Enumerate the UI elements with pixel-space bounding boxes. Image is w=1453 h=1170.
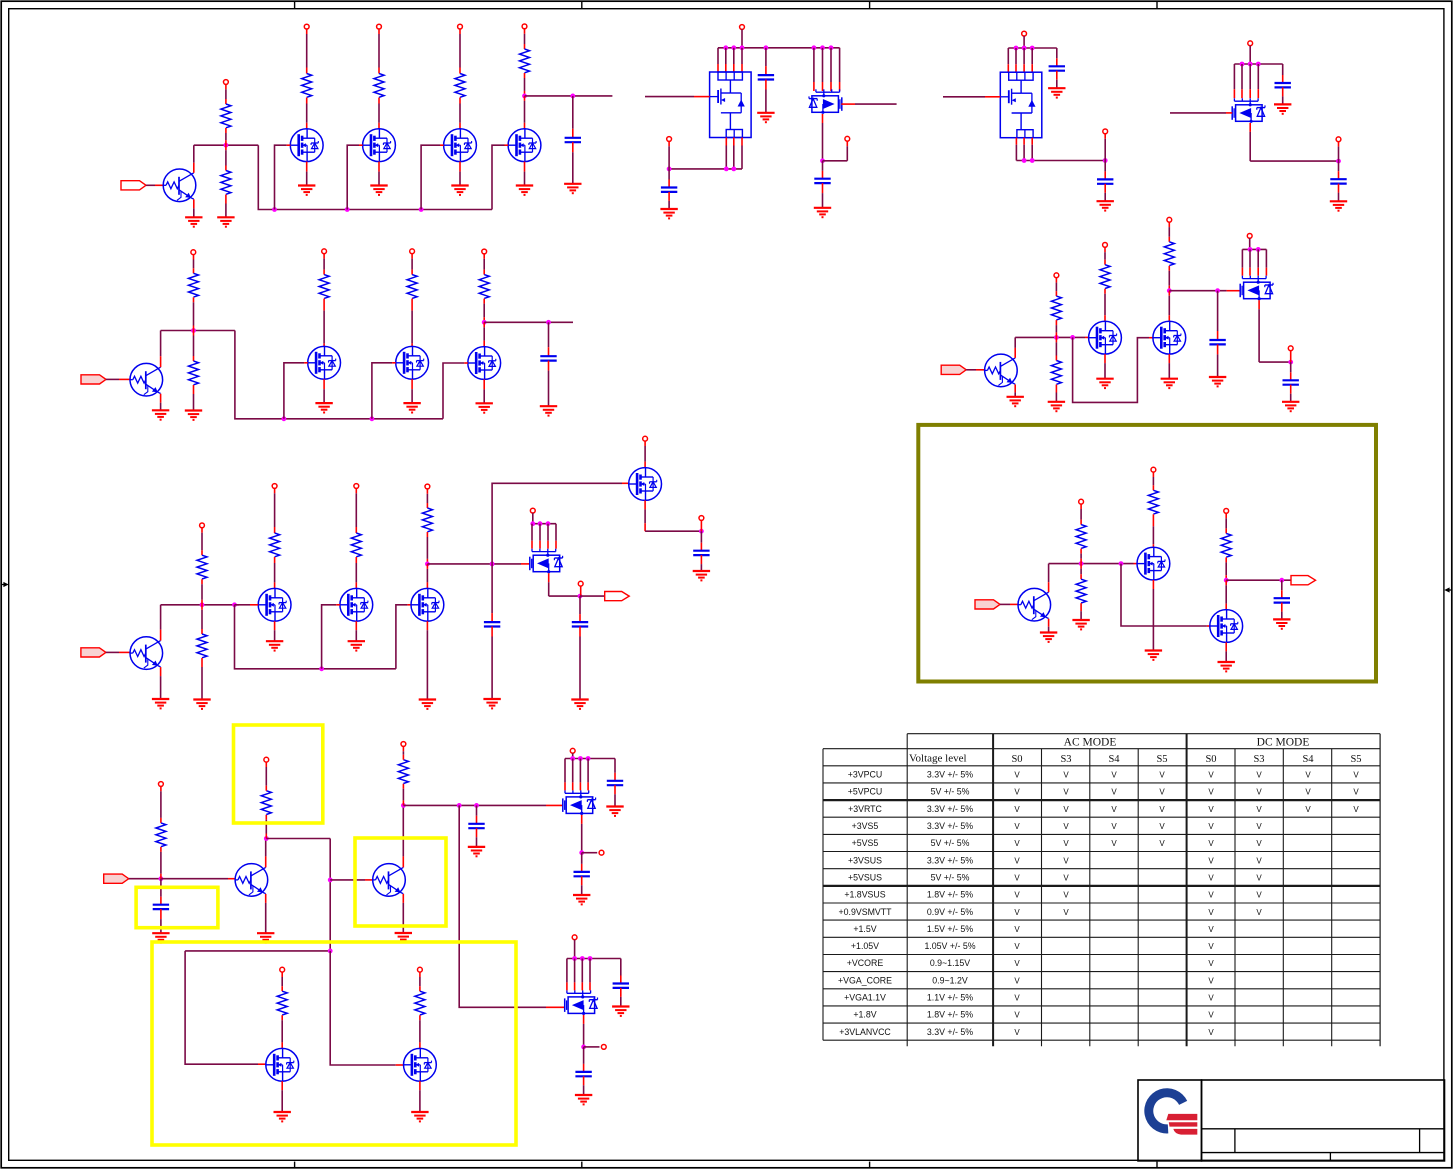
svg-text:V: V (1159, 822, 1165, 831)
svg-text:1.8V +/- 5%: 1.8V +/- 5% (927, 890, 973, 900)
resistor RM6 (407, 275, 417, 299)
pin P-R10 (1054, 273, 1059, 278)
wire M7 source (483, 379, 485, 403)
svg-text:V: V (1256, 822, 1262, 831)
wire R12 to node (1080, 549, 1082, 564)
wire U2 pin (813, 48, 815, 91)
resistor R3 (189, 273, 199, 297)
wire R3 to node (193, 297, 195, 330)
input flag IN3 (81, 648, 106, 657)
ground Q5 emitter (395, 933, 412, 942)
junction (1256, 247, 1261, 252)
wire Q4 collector (265, 839, 267, 868)
wire R1 to node (225, 128, 227, 145)
svg-text:+1.05V: +1.05V (851, 941, 879, 951)
svg-text:V: V (1208, 805, 1214, 814)
wire M13 gate lead (396, 1064, 404, 1066)
wire Q4 base lead (228, 878, 235, 880)
wire Q6 emitter (1014, 384, 1016, 396)
pin P-N3 (1103, 129, 1108, 134)
output flag OUT1 (605, 592, 630, 601)
svg-text:+0.9VSMVTT: +0.9VSMVTT (838, 907, 892, 917)
wire M5 source (323, 379, 325, 403)
svg-text:1.8V +/- 5%: 1.8V +/- 5% (927, 1010, 973, 1020)
ground C7 (1274, 104, 1291, 113)
wire U6 source (581, 815, 583, 853)
pin P-M1 (304, 24, 309, 29)
resistor RM17 (1221, 533, 1231, 557)
wire C16 top (581, 853, 583, 872)
junction (1054, 335, 1059, 340)
svg-text:V: V (1256, 856, 1262, 865)
wire R5 top (201, 528, 203, 556)
pin P-U7 (572, 935, 577, 940)
junction (282, 416, 287, 421)
svg-text:V: V (1353, 805, 1359, 814)
wire N3 riser (1104, 134, 1106, 161)
resistor RM2 (374, 74, 384, 98)
wire N1 riser (668, 141, 670, 169)
junction (820, 45, 825, 50)
ground M13 (411, 1112, 428, 1121)
junction (570, 756, 575, 761)
wire M3 gate riser (421, 145, 440, 209)
wire C2 bottom (765, 80, 767, 113)
nmos M16 (1137, 547, 1170, 580)
resistor R12 (1076, 525, 1086, 549)
wire C9 bottom (548, 361, 550, 407)
wire C1 bottom (572, 142, 574, 184)
pin P-M5 (322, 249, 327, 254)
resistor R8 (261, 791, 271, 815)
title block (1138, 1080, 1445, 1161)
wire C18 bottom (583, 1076, 585, 1095)
svg-text:V: V (1256, 788, 1262, 797)
wire M10 source (426, 621, 428, 699)
resistor RM16 (1148, 490, 1158, 514)
wire Q1 collector bus (194, 144, 258, 146)
svg-text:V: V (1111, 771, 1117, 780)
nmos M4 (508, 129, 541, 162)
ground Q4 emitter (257, 933, 274, 942)
wire R7 top (160, 786, 162, 823)
pin P-M9 (354, 484, 359, 489)
resistor R11 (1051, 361, 1061, 385)
svg-text:0.9~1.15V: 0.9~1.15V (930, 958, 970, 968)
wire M12 drain (281, 1015, 283, 1048)
border tick bottom (581, 1162, 583, 1168)
pin P-M2 (377, 24, 382, 29)
capacitor C14 (468, 824, 484, 828)
junction (1248, 247, 1253, 252)
wire M15 drain upper (1168, 222, 1170, 242)
svg-text:3.3V +/- 5%: 3.3V +/- 5% (927, 855, 973, 865)
junction (1336, 159, 1341, 164)
svg-text:5V +/- 5%: 5V +/- 5% (931, 787, 970, 797)
wire Q3 base lead (119, 651, 130, 653)
border tick top (1156, 1, 1158, 9)
wire Q2 collector bus (161, 330, 235, 332)
svg-text:+3VLANVCC: +3VLANVCC (839, 1027, 891, 1037)
wire U3 bottom pin (1015, 138, 1017, 161)
wire row2 node stub (484, 321, 573, 323)
junction (1256, 62, 1261, 67)
wire U1 pin (717, 48, 719, 72)
wire row3 gate bus (235, 605, 396, 669)
wire U4 pin (1249, 64, 1251, 98)
junction (319, 666, 324, 671)
wire U8 pin (1241, 249, 1243, 275)
wire M17 source (1225, 642, 1227, 662)
pin P-U5 (530, 508, 535, 513)
wire U8 gate lead (1227, 290, 1240, 292)
wire bus950 (185, 950, 330, 952)
junction (1224, 578, 1229, 583)
wire M10 res to node (426, 532, 428, 564)
wire M13 gate path (330, 951, 396, 1065)
wire M1 gate riser (275, 145, 287, 209)
wire M12 gate path (185, 951, 258, 1064)
wire U6 pin (564, 759, 566, 791)
pin P-U6 (570, 748, 575, 753)
junction (474, 803, 479, 808)
svg-text:V: V (1014, 856, 1020, 865)
wire C1 top (572, 96, 574, 138)
wire U7 pin (566, 959, 568, 991)
resistor RM15 (1164, 242, 1174, 266)
wire M1 gate lead (287, 144, 291, 146)
svg-text:V: V (1014, 994, 1020, 1003)
svg-text:+3VPCU: +3VPCU (848, 770, 882, 780)
wire U1 top bus (718, 47, 840, 49)
wire M5 drain (323, 299, 325, 347)
wire M4 gate riser (492, 145, 505, 209)
wire C8 top (1338, 161, 1340, 179)
wire Q7 emitter (1048, 619, 1050, 633)
wire flag4 bus (129, 878, 161, 880)
svg-text:V: V (1014, 891, 1020, 900)
wire C20 bottom (1290, 385, 1292, 402)
wire M5 gate lead (304, 362, 308, 364)
svg-text:+1.8V: +1.8V (853, 1010, 876, 1020)
wire C4 bottom (822, 183, 824, 208)
svg-text:V: V (1208, 874, 1214, 883)
wire U6 out (582, 852, 598, 854)
svg-text:V: V (1305, 771, 1311, 780)
svg-text:V: V (1159, 788, 1165, 797)
wire U6 gate lead (546, 804, 563, 806)
logo (1144, 1088, 1197, 1134)
ground R2 (217, 217, 234, 226)
junction (1119, 561, 1124, 566)
capacitor C1 (565, 138, 581, 142)
svg-text:+5VSUS: +5VSUS (848, 873, 882, 883)
input flag IN4 (104, 874, 129, 883)
wire M7 gate lead (464, 362, 468, 364)
wire Q4 collector bus (266, 838, 330, 840)
wire C7 top (1282, 64, 1284, 83)
wire M17 to node (1225, 557, 1227, 580)
transistor Q5 (373, 864, 406, 897)
resistor RM8 (270, 533, 280, 557)
wire M7 gate riser (443, 363, 464, 419)
svg-text:3.3V +/- 5%: 3.3V +/- 5% (927, 821, 973, 831)
border arrow left (1, 582, 9, 587)
svg-text:V: V (1063, 788, 1069, 797)
ground Q6 emitter (1007, 397, 1024, 406)
svg-text:V: V (1353, 771, 1359, 780)
nmos M11 (629, 468, 662, 501)
wire M8 drain (274, 557, 276, 588)
wire Q5 base (330, 879, 365, 881)
svg-text:V: V (1014, 959, 1020, 968)
transistor Q7 (1018, 588, 1051, 621)
wire C13 bottom (160, 909, 162, 933)
pin P-R12 (1079, 499, 1084, 504)
wire M4 drain (524, 96, 526, 129)
svg-text:S3: S3 (1253, 754, 1264, 765)
svg-text:V: V (1256, 891, 1262, 900)
table grid (823, 734, 1380, 1046)
ground R13 (1072, 620, 1089, 629)
pin P-N8 (601, 1045, 606, 1050)
resistor R2 (221, 171, 231, 195)
svg-text:V: V (1208, 839, 1214, 848)
junction (578, 756, 583, 761)
wire U6 pin (587, 759, 589, 791)
wire U1 gate stub (645, 96, 694, 98)
nmos M10 (411, 588, 444, 621)
pin P-R5 (200, 523, 205, 528)
junction (699, 529, 704, 534)
svg-text:V: V (1063, 771, 1069, 780)
junction (159, 876, 164, 881)
junction (812, 45, 817, 50)
wire node to R13 (1080, 564, 1082, 580)
wire base bus Q4 (161, 878, 228, 880)
ground C3 (660, 209, 677, 218)
wire C16 bottom (581, 876, 583, 895)
wire M2 gate lead (359, 144, 363, 146)
nmos M6 (396, 346, 429, 379)
svg-text:+1.5V: +1.5V (853, 924, 876, 934)
resistor R6 (197, 634, 207, 658)
svg-text:V: V (1063, 822, 1069, 831)
wire out to flag (580, 595, 605, 597)
transistor Q4 (235, 864, 268, 897)
svg-text:V: V (1256, 771, 1262, 780)
pin P-R3 (191, 250, 196, 255)
resistor R10 (1051, 296, 1061, 320)
ground C11 (693, 571, 710, 580)
junction (1167, 288, 1172, 293)
junction (724, 167, 729, 172)
wire C21 bottom (1281, 603, 1283, 620)
wire U1 pin (725, 48, 727, 72)
ground M14 (1096, 379, 1113, 388)
ground C1 (564, 184, 581, 193)
input flag IN6 (975, 600, 1000, 609)
ground M15 (1161, 379, 1178, 388)
junction (579, 850, 584, 855)
wire M15 gate lead (1149, 337, 1153, 339)
wire M17 drain (1225, 580, 1227, 609)
wire C9 top (548, 322, 550, 356)
border tick top (869, 1, 871, 9)
ground C2 (757, 113, 774, 122)
wire rail290 (1169, 290, 1226, 292)
wire row3 node bus (427, 563, 521, 565)
svg-text:V: V (1063, 891, 1069, 900)
svg-text:S4: S4 (1302, 754, 1314, 765)
svg-text:V: V (1208, 788, 1214, 797)
resistor R5 (197, 555, 207, 579)
wire U2 gate stub (855, 103, 897, 105)
wire M9 source (355, 621, 357, 641)
pin P-M12 (280, 967, 285, 972)
svg-text:V: V (1208, 771, 1214, 780)
wire rail805 (403, 804, 546, 806)
junction (1022, 158, 1027, 163)
wire C3 top (668, 169, 670, 188)
pin P-R1 (224, 80, 229, 85)
olive highlight box (918, 425, 1376, 682)
wire flag6 to Q7 (1000, 603, 1010, 605)
wire M17 gate lead (1207, 625, 1210, 627)
svg-text:S3: S3 (1060, 754, 1071, 765)
wire U5 pin (555, 524, 557, 549)
wire U3 pin (1015, 48, 1017, 72)
capacitor C5 (1049, 66, 1065, 70)
wire M9 gate riser (322, 605, 337, 669)
resistor R9 (398, 760, 408, 784)
junction (538, 521, 543, 526)
wire C3 bottom (668, 192, 670, 209)
ground M17 (1218, 662, 1235, 671)
nmos M8 (258, 588, 291, 621)
wire M2 drain upper (378, 29, 380, 74)
wire U1 bottom pin (725, 138, 727, 169)
wire C18 top (583, 1047, 585, 1072)
wire M10 gate lead (407, 604, 411, 606)
wire C4 top (822, 161, 824, 179)
wire C20 top (1290, 362, 1292, 380)
svg-text:+3VRTC: +3VRTC (848, 804, 882, 814)
wire N9 riser (1290, 351, 1292, 363)
ground C19 (1209, 377, 1226, 386)
wire C12 bottom (579, 627, 581, 700)
wire U8 feed (1249, 238, 1251, 249)
wire node to R2 (225, 145, 227, 170)
capacitor C10 (484, 622, 500, 626)
capacitor C18 (575, 1072, 591, 1076)
wire N5 riser (700, 520, 702, 531)
wire Q7 collector bus (1049, 563, 1134, 565)
junction (731, 167, 736, 172)
wire U3 pin (1023, 48, 1025, 72)
wire R7 to node (160, 847, 162, 879)
nmos M1 (290, 129, 323, 162)
svg-text:V: V (1014, 942, 1020, 951)
nmos M7 (468, 347, 501, 380)
wire M4 source (524, 162, 526, 186)
wire R4 to ground (193, 385, 195, 411)
wire U1 gate lead (694, 96, 710, 98)
junction (457, 803, 462, 808)
svg-text:V: V (1159, 805, 1165, 814)
wire M3 drain (459, 98, 461, 129)
ground R6 (193, 700, 210, 709)
highlight box 3 (355, 838, 446, 926)
wire U8 pin (1249, 249, 1251, 275)
wire M6 gate lead (392, 362, 396, 364)
pin P-M8 (272, 484, 277, 489)
wire U6 pin (579, 759, 581, 791)
wire M15 to node (1168, 266, 1170, 291)
junction (578, 594, 583, 599)
nmos M5 (308, 346, 341, 379)
svg-text:+1.8VSUS: +1.8VSUS (844, 890, 885, 900)
junction (425, 562, 430, 567)
junction (490, 562, 495, 567)
svg-text:V: V (1159, 771, 1165, 780)
ground C12 (571, 700, 588, 709)
ground C5 (1048, 88, 1065, 97)
junction (586, 756, 591, 761)
wire U8 out (1259, 361, 1291, 363)
wire Q5 collector (402, 805, 404, 867)
junction (1240, 62, 1245, 67)
wire C15 bottom (614, 785, 616, 806)
junction (581, 1045, 586, 1050)
junction (1103, 158, 1108, 163)
wire C5 top (1056, 48, 1058, 66)
nmos M15 (1153, 321, 1186, 354)
capacitor C15 (607, 781, 623, 785)
junction (272, 207, 277, 212)
capacitor C9 (540, 356, 556, 360)
input flag IN2 (81, 375, 106, 384)
svg-text:S0: S0 (1205, 754, 1216, 765)
ground C14 (468, 847, 485, 856)
wire M8 drain upper (274, 488, 276, 533)
resistor RM1 (302, 74, 312, 98)
ground M1 (298, 186, 315, 195)
pin P-N2 (845, 136, 850, 141)
resistor RM7 (479, 275, 489, 299)
ground C18 (575, 1095, 592, 1104)
resistor RM3 (455, 74, 465, 98)
wire U4 feed (1249, 46, 1251, 64)
resistor R7 (156, 823, 166, 847)
resistor RM4 (520, 49, 530, 73)
pin P-M4 (522, 24, 527, 29)
svg-text:V: V (1305, 805, 1311, 814)
junction (1279, 578, 1284, 583)
pfet U8 (1240, 276, 1273, 301)
wire U7 top bus (567, 958, 621, 960)
border tick top (581, 1, 583, 9)
wire U5 source (548, 573, 550, 596)
junction (419, 207, 424, 212)
highlight box 1 (234, 725, 323, 823)
wire M11 source (644, 500, 646, 531)
resistor R13 (1076, 579, 1086, 603)
ground C9 (540, 406, 557, 415)
wire U5 pin (547, 524, 549, 549)
pin P-M7 (482, 249, 487, 254)
pin P-U4 (1248, 41, 1253, 46)
